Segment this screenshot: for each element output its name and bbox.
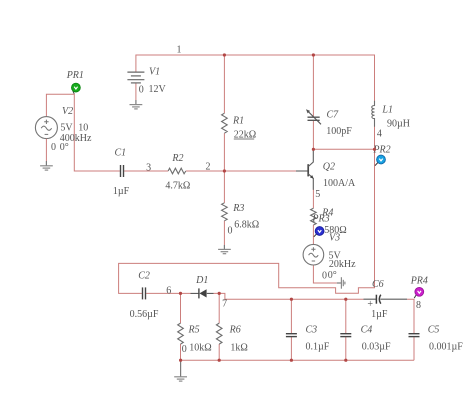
svg-text:V1: V1 bbox=[149, 67, 160, 78]
inductor L1 bbox=[372, 101, 375, 127]
resistor R2 bbox=[168, 168, 186, 174]
svg-text:R1: R1 bbox=[232, 115, 244, 126]
probe PR4 bbox=[414, 287, 423, 298]
resistor R6 bbox=[216, 323, 222, 344]
AC source V3 bbox=[303, 244, 324, 265]
wire C7 top stem bbox=[312, 55, 314, 117]
resistor R5 bbox=[178, 323, 184, 344]
svg-text:90µH: 90µH bbox=[387, 118, 410, 129]
svg-text:1µF: 1µF bbox=[113, 186, 130, 197]
ground below R3 bbox=[218, 245, 231, 254]
variable capacitor C7 bbox=[306, 109, 321, 124]
svg-text:0: 0 bbox=[228, 225, 233, 236]
svg-text:R2: R2 bbox=[171, 153, 183, 164]
capacitor C2 bbox=[143, 287, 146, 299]
wire net 10 from V2 top over PR1 corner down to C1 bbox=[46, 94, 120, 171]
svg-text:C2: C2 bbox=[138, 270, 150, 281]
wire C4 top stem bbox=[345, 299, 347, 333]
svg-text:R6: R6 bbox=[229, 325, 241, 336]
probe PR2 bbox=[375, 155, 385, 166]
svg-text:0: 0 bbox=[51, 142, 56, 153]
wire L1 bottom and feedback vertical down to step bbox=[119, 127, 375, 294]
probe PR3 bbox=[314, 227, 324, 237]
wire net 7 D1 cathode jog to output row bbox=[214, 293, 364, 299]
svg-text:8: 8 bbox=[416, 300, 421, 311]
svg-text:C4: C4 bbox=[361, 325, 373, 336]
ground below rail bbox=[174, 360, 187, 381]
ground below V2 bbox=[40, 161, 53, 170]
svg-text:4: 4 bbox=[377, 129, 382, 140]
svg-text:V3: V3 bbox=[329, 233, 340, 244]
probe PR1 bbox=[72, 83, 81, 94]
svg-text:100A/A: 100A/A bbox=[323, 178, 356, 189]
ground below V1 bbox=[130, 100, 143, 109]
wire net 2 R2 to Q2 base bbox=[186, 170, 296, 172]
wire Q2 emitter stem to R4 bbox=[312, 190, 314, 209]
svg-text:PR1: PR1 bbox=[66, 70, 84, 81]
svg-text:R3: R3 bbox=[232, 203, 244, 214]
svg-text:PR3: PR3 bbox=[311, 213, 329, 224]
svg-text:0: 0 bbox=[322, 270, 327, 281]
wire net 3 C1 to R2 bbox=[124, 170, 168, 172]
svg-text:0: 0 bbox=[182, 344, 187, 355]
svg-text:1: 1 bbox=[177, 44, 182, 55]
wire C7 bottom stem bbox=[312, 121, 314, 150]
svg-text:7: 7 bbox=[222, 299, 227, 310]
diode D1 bbox=[191, 288, 214, 298]
wire R6 bottom stem bbox=[218, 344, 220, 360]
svg-text:0.001µF: 0.001µF bbox=[429, 342, 463, 353]
wire C4 bottom stem bbox=[345, 337, 347, 360]
ground at V3 rotated right bbox=[337, 277, 345, 289]
wire net 6 C2 to D1 anode bbox=[146, 292, 190, 294]
AC source V2 bbox=[35, 117, 57, 139]
polarized capacitor C6 bbox=[364, 295, 408, 310]
wire R3 bottom stem to ground bbox=[223, 221, 225, 245]
svg-text:C7: C7 bbox=[327, 110, 340, 121]
svg-text:V2: V2 bbox=[62, 106, 73, 117]
wire R4 to V3 top bbox=[312, 225, 314, 245]
capacitor C5 bbox=[409, 334, 420, 337]
wire net 1 top rail from V1 to L1 bbox=[136, 55, 375, 101]
svg-text:0.56µF: 0.56µF bbox=[130, 309, 159, 320]
svg-text:C1: C1 bbox=[114, 148, 126, 159]
wire V2 bottom stem bbox=[45, 139, 47, 161]
svg-text:4.7kΩ: 4.7kΩ bbox=[165, 181, 190, 192]
svg-text:100pF: 100pF bbox=[326, 126, 352, 137]
junction dot net1 C7 bbox=[312, 53, 315, 56]
wire V3 bottom to ground bbox=[313, 265, 336, 283]
transistor Q2 bbox=[296, 150, 314, 190]
junction dot rail R5 bbox=[179, 359, 182, 362]
junction dot collector C7 bbox=[312, 148, 315, 151]
svg-text:Q2: Q2 bbox=[323, 162, 335, 173]
svg-text:1kΩ: 1kΩ bbox=[230, 343, 247, 354]
junction dot L1 feedback bbox=[373, 148, 376, 151]
svg-text:L1: L1 bbox=[381, 104, 393, 115]
wire R5 bottom stem bbox=[180, 344, 182, 360]
svg-text:5: 5 bbox=[315, 189, 320, 200]
svg-text:0: 0 bbox=[139, 84, 144, 95]
wire C3 bottom stem bbox=[290, 337, 292, 360]
wire R3 top stem bbox=[223, 171, 225, 203]
junction dot node 7 bbox=[218, 292, 221, 295]
junction dot rail R6 bbox=[218, 359, 221, 362]
junction dot rail C3 bbox=[290, 359, 293, 362]
junction dot rail C4 bbox=[344, 359, 347, 362]
capacitor C4 bbox=[340, 334, 351, 337]
wire V1 bottom stem bbox=[135, 84, 137, 101]
wire ground rail bottom bbox=[181, 359, 414, 361]
junction dot net1 R1 bbox=[223, 53, 226, 56]
svg-text:0.03µF: 0.03µF bbox=[362, 342, 391, 353]
svg-text:C5: C5 bbox=[428, 325, 440, 336]
junction dot node 6 bbox=[179, 292, 182, 295]
junction dot C4 top bbox=[344, 298, 347, 301]
svg-text:C6: C6 bbox=[372, 279, 384, 290]
wire R1 top stem bbox=[223, 55, 225, 113]
svg-text:C3: C3 bbox=[306, 325, 318, 336]
svg-text:20kHz: 20kHz bbox=[329, 259, 356, 270]
wire R5 top stem bbox=[180, 293, 182, 323]
svg-text:PR4: PR4 bbox=[410, 276, 428, 287]
svg-text:0°: 0° bbox=[328, 270, 337, 281]
svg-text:6.8kΩ: 6.8kΩ bbox=[234, 219, 259, 230]
wire R6 top stem bbox=[218, 293, 220, 323]
wire C5 bottom stem bbox=[413, 337, 415, 360]
resistor R1 bbox=[222, 113, 228, 133]
svg-text:1µF: 1µF bbox=[371, 309, 388, 320]
wire C3 top stem bbox=[290, 299, 292, 333]
resistor R4 bbox=[311, 208, 317, 225]
wire net 8 C6 right to C5 bbox=[407, 299, 414, 333]
resistor R3 bbox=[222, 203, 228, 221]
svg-text:10kΩ: 10kΩ bbox=[189, 343, 211, 354]
svg-text:6: 6 bbox=[166, 285, 171, 296]
junction dot C3 top bbox=[290, 298, 293, 301]
svg-text:R5: R5 bbox=[188, 325, 200, 336]
svg-text:D1: D1 bbox=[195, 275, 208, 286]
wire net 4 collector row to L1 bbox=[313, 148, 374, 150]
capacitor C3 bbox=[286, 334, 297, 337]
capacitor C1 bbox=[121, 165, 124, 177]
svg-text:0.1µF: 0.1µF bbox=[306, 342, 330, 353]
wire R1 bottom stem bbox=[223, 133, 225, 171]
svg-text:12V: 12V bbox=[149, 84, 167, 95]
svg-text:0°: 0° bbox=[60, 142, 69, 153]
junction dot node 2 bbox=[223, 169, 226, 172]
svg-text:2: 2 bbox=[206, 162, 211, 173]
svg-text:3: 3 bbox=[146, 162, 151, 173]
battery V1 bbox=[127, 72, 144, 83]
